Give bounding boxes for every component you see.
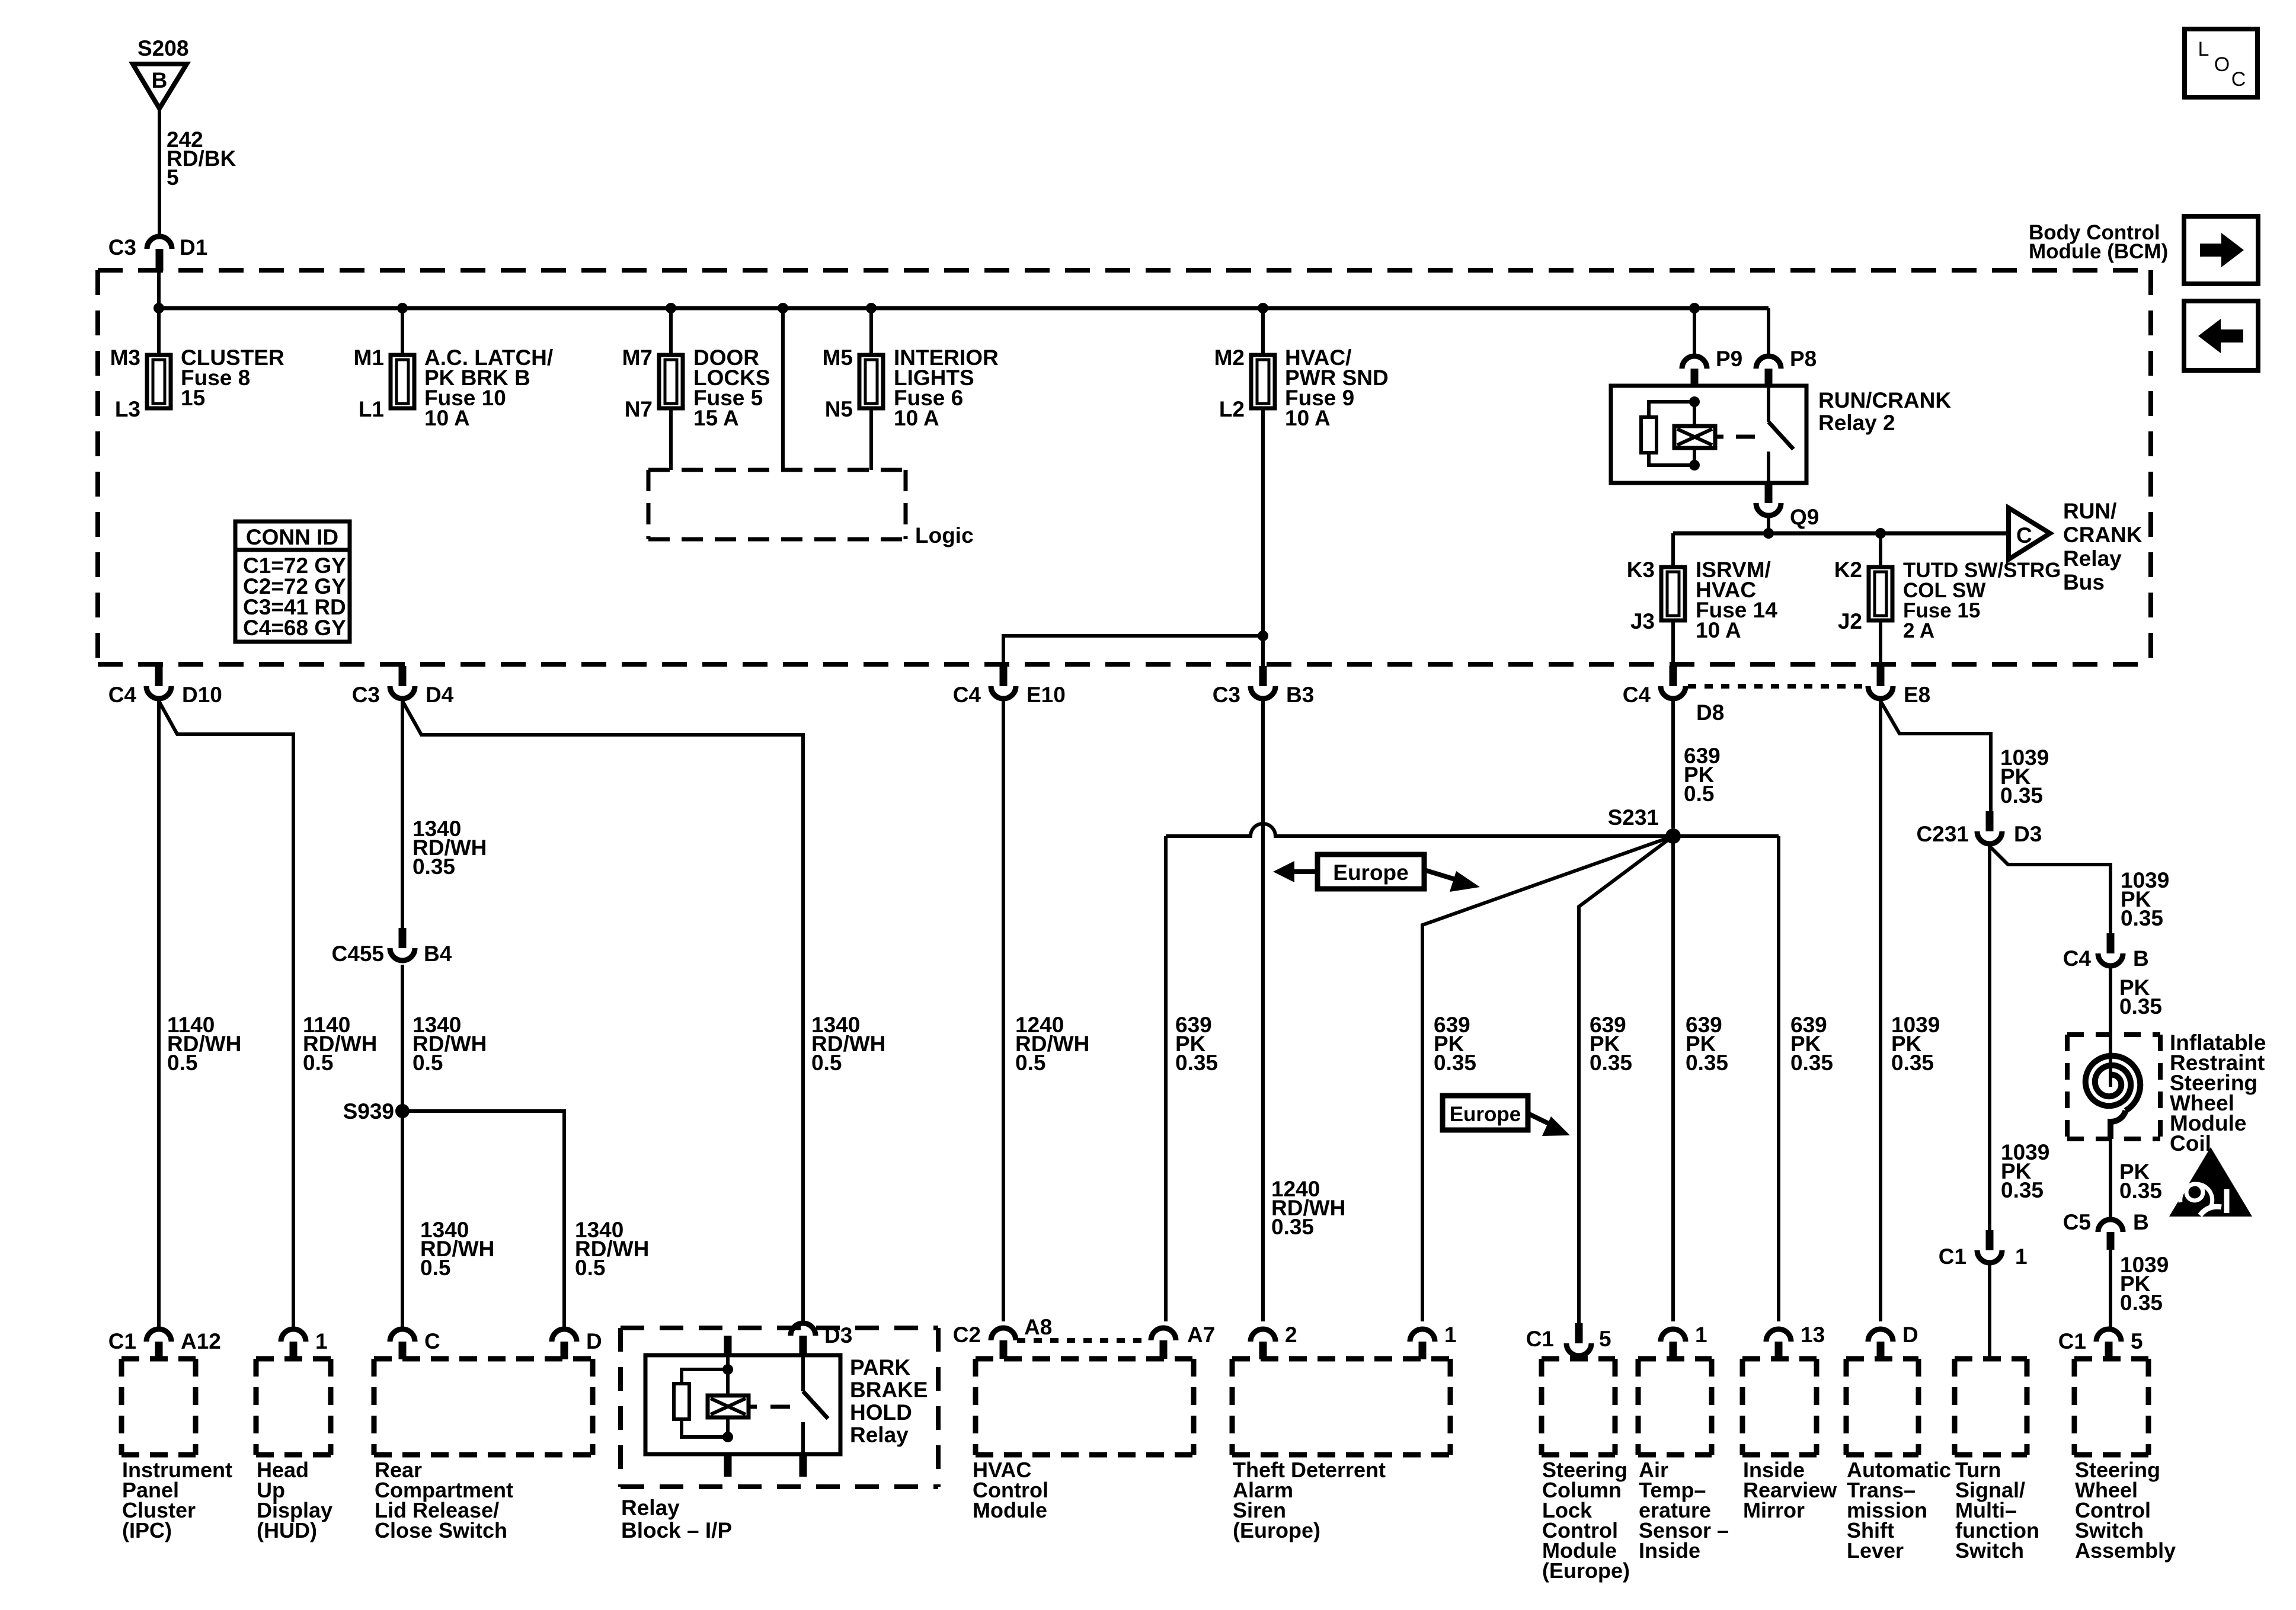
- component box Instrument Panel Cluster (IPC): [121, 1359, 196, 1455]
- svg-text:C1: C1: [108, 1329, 136, 1353]
- svg-text:L2: L2: [1219, 397, 1245, 421]
- connector 1 at HUD: [281, 1329, 306, 1359]
- svg-text:Q9: Q9: [1790, 505, 1819, 529]
- svg-text:D1: D1: [180, 235, 207, 260]
- connector C at rear compartment switch: [390, 1329, 415, 1359]
- wire coil box to C5/B: [2109, 1139, 2112, 1218]
- fuse DOOR LOCKS Fuse 5 (M7/N7): [659, 355, 683, 408]
- connector D at rear compartment switch: [552, 1329, 577, 1359]
- connector P8 (relay switch): [1756, 356, 1781, 386]
- svg-text:D3: D3: [2014, 822, 2042, 846]
- svg-text:S208: S208: [137, 36, 188, 60]
- svg-text:D10: D10: [182, 683, 222, 707]
- svg-text:Europe: Europe: [1450, 1103, 1521, 1126]
- Inflatable Restraint Steering Wheel Module Coil dashed box: [2067, 1035, 2160, 1139]
- wire Q9 to relay bus: [1767, 518, 1770, 533]
- svg-text:C1: C1: [1526, 1327, 1554, 1351]
- svg-text:5: 5: [1599, 1327, 1611, 1351]
- svg-text:C455: C455: [332, 942, 384, 966]
- Europe arrow pointing left: [1294, 869, 1318, 874]
- svg-text:C: C: [424, 1329, 440, 1353]
- svg-text:E8: E8: [1904, 683, 1930, 707]
- component box Head Up Display (HUD): [256, 1359, 331, 1455]
- svg-text:5: 5: [2131, 1329, 2143, 1353]
- connector C4/B inline: [2098, 933, 2123, 966]
- fuse ISRVM/HVAC Fuse 14 (K3/J3): [1661, 567, 1685, 620]
- wire C4/B to coil box: [2109, 967, 2112, 1035]
- wire bus to relay pin P9: [1693, 308, 1696, 355]
- wire B3 to Theft 2 (1240 RD/WH): [1261, 701, 1265, 1321]
- relay 2 coil junction top: [1689, 396, 1700, 407]
- fuse A.C. LATCH/PK BRK B Fuse 10 (M1/L1): [391, 355, 414, 408]
- svg-text:M1: M1: [354, 345, 384, 370]
- svg-text:L1: L1: [359, 397, 384, 421]
- svg-text:C2: C2: [953, 1323, 981, 1347]
- wire bus to fuse M2: [1261, 308, 1265, 355]
- connector C4/D10: [146, 666, 171, 699]
- relay 2 linkage dashes: [1715, 435, 1723, 439]
- wire S939 to Rear Compartment D: [402, 1111, 564, 1329]
- svg-text:C: C: [2231, 68, 2246, 91]
- junction dot Q9/bus: [1763, 528, 1774, 539]
- connector C231/D3 inline: [1977, 811, 2002, 844]
- svg-text:N5: N5: [825, 397, 853, 421]
- connector 13 at rearview mirror: [1766, 1329, 1791, 1359]
- connector C4/E10: [991, 666, 1016, 699]
- svg-text:CONN ID: CONN ID: [246, 525, 338, 549]
- svg-text:S939: S939: [343, 1099, 394, 1124]
- svg-text:K3: K3: [1627, 558, 1655, 582]
- wire S231 to Theft Deterrent A7: [1164, 836, 1168, 1321]
- wire bus to fuse M1: [401, 308, 404, 355]
- svg-text:C3: C3: [352, 683, 380, 707]
- wire D3 branch to C4/B: [1990, 846, 2110, 933]
- connector A7 at HVAC module: [1151, 1328, 1176, 1359]
- park relay coil (X box): [726, 1355, 730, 1395]
- Europe callout box 1: [1318, 854, 1424, 889]
- wire D10 branch to HUD: [159, 701, 293, 1329]
- wire bus to fuse M7: [669, 308, 673, 355]
- svg-text:C1: C1: [2058, 1329, 2086, 1353]
- component box Automatic Transmission Shift Lever: [1846, 1359, 1918, 1455]
- svg-text:C4: C4: [1623, 683, 1651, 707]
- svg-text:D4: D4: [426, 683, 454, 707]
- svg-text:2: 2: [1285, 1323, 1297, 1347]
- svg-text:E10: E10: [1027, 683, 1066, 707]
- connector C1/1 inline: [1977, 1230, 2002, 1263]
- wire D8 to splice S231 (639 PK): [1671, 701, 1675, 828]
- connector 2 at theft siren: [1251, 1329, 1275, 1359]
- park relay coil pin stub bottom: [724, 1454, 732, 1477]
- wire D1 to bus: [157, 270, 161, 355]
- svg-text:Logic: Logic: [915, 523, 974, 548]
- park relay coil junction bottom: [722, 1432, 733, 1442]
- wire 242 RD/BK from S208 to connector D1: [158, 108, 161, 235]
- svg-text:L: L: [2198, 38, 2209, 60]
- component box Turn Signal/Multifunction Switch: [1955, 1359, 2027, 1455]
- connector 1 at theft siren: [1410, 1329, 1435, 1359]
- connector C4/D8: [1661, 666, 1686, 699]
- wire fuse K3 to connector D8: [1671, 620, 1675, 666]
- svg-text:C231: C231: [1917, 822, 1969, 846]
- fuse HVAC/PWR SND Fuse 9 (M2/L2): [1251, 355, 1275, 408]
- park relay coil junction top: [722, 1364, 733, 1375]
- svg-text:D3: D3: [824, 1323, 852, 1347]
- svg-text:O: O: [2214, 53, 2230, 76]
- svg-text:C5: C5: [2063, 1210, 2091, 1234]
- svg-text:M7: M7: [622, 345, 653, 370]
- svg-text:B3: B3: [1286, 683, 1314, 707]
- connector D at shift lever: [1868, 1329, 1893, 1359]
- wire relay bus to fuse K2: [1879, 533, 1882, 567]
- splice S939: [395, 1104, 410, 1118]
- wire S231 horizontal right: [1673, 834, 1779, 838]
- svg-text:C4: C4: [108, 683, 137, 707]
- svg-text:D: D: [586, 1329, 602, 1353]
- svg-text:M2: M2: [1214, 345, 1245, 370]
- legend box arrow left: [2184, 301, 2258, 370]
- connector C455/B4 inline: [390, 928, 415, 961]
- wire relay bus to fuse K3: [1671, 533, 1675, 567]
- svg-text:M5: M5: [823, 345, 853, 370]
- wire fuse M5 to Logic box: [869, 408, 873, 470]
- legend box arrow right: [2184, 216, 2258, 284]
- connector E8: [1868, 666, 1893, 699]
- component box Steering Wheel Control Switch Assembly: [2074, 1359, 2148, 1455]
- connector C2/A8 at HVAC module: [991, 1328, 1016, 1359]
- component box Rear Compartment Lid Release/Close Switch: [374, 1359, 593, 1455]
- svg-text:K2: K2: [1834, 558, 1862, 582]
- wire bus to Logic box (middle): [781, 308, 785, 470]
- wire bus to fuse M5: [869, 308, 873, 355]
- wire S231 diagonal to Steering Column Lock C1/5: [1579, 836, 1673, 1323]
- junction dot on bus at x=1470: [866, 303, 877, 313]
- wire D4 to C455 (1340 RD/WH): [401, 701, 404, 928]
- park relay linkage dashes: [749, 1405, 757, 1409]
- connector D3 at relay block: [791, 1323, 816, 1355]
- svg-text:Europe: Europe: [1333, 860, 1408, 885]
- wire bus corner to relay pin P8: [1767, 308, 1770, 355]
- svg-text:1: 1: [1444, 1323, 1457, 1347]
- svg-text:S231: S231: [1608, 805, 1659, 830]
- connector C1/5 at steering column lock: [1566, 1323, 1591, 1356]
- wire S231 to Air Temperature Sensor 1: [1671, 836, 1675, 1321]
- connector C3/D4: [390, 666, 415, 699]
- wire C455 to splice S939: [401, 965, 404, 1111]
- power triangle S208 (B): [133, 64, 187, 108]
- clockspring coil spiral: [2109, 1035, 2112, 1067]
- wire S231 horizontal left with hop over B3 wire: [1166, 824, 1673, 836]
- component box HVAC Control Module: [976, 1359, 1194, 1455]
- wire bus to fuse M3: [157, 308, 161, 355]
- svg-text:SteeringColumnLockControlModul: SteeringColumnLockControlModule(Europe): [1542, 1458, 1630, 1583]
- svg-text:1: 1: [315, 1329, 328, 1353]
- junction dot on bus at x=679: [397, 303, 408, 313]
- connector Q9 (relay output): [1756, 483, 1781, 516]
- wire C1/1 to Turn Signal switch: [1988, 1265, 1991, 1359]
- svg-text:A7: A7: [1187, 1323, 1215, 1347]
- wire S231 diagonal to Theft Siren 1: [1422, 836, 1673, 1321]
- park relay switch: [801, 1355, 805, 1391]
- Logic dashed box: [648, 470, 906, 539]
- junction dot on bus at x=1321: [778, 303, 788, 313]
- junction dot on bus at x=2859: [1689, 303, 1700, 313]
- triangle C RUN/CRANK Relay Bus: [2009, 508, 2050, 559]
- splice S231: [1665, 828, 1681, 844]
- svg-text:J2: J2: [1838, 609, 1862, 633]
- relay 2 coil junction bottom: [1689, 460, 1700, 470]
- svg-text:D: D: [1902, 1323, 1918, 1347]
- wire fuse M2 to connector B3: [1261, 408, 1265, 666]
- wire S231 to Inside Rearview Mirror 13: [1777, 836, 1780, 1321]
- svg-text:C1: C1: [1939, 1244, 1966, 1269]
- PARK BRAKE HOLD Relay box: [645, 1355, 840, 1454]
- wire E8 branch to C231: [1881, 701, 1991, 811]
- svg-text:A8: A8: [1024, 1315, 1052, 1339]
- svg-text:C1=72 GYC2=72 GYC3=41 RDC4=68: C1=72 GYC2=72 GYC3=41 RDC4=68 GY: [243, 553, 346, 640]
- wire fuse M7 to Logic box: [669, 408, 673, 470]
- connector C3/B3: [1251, 666, 1275, 699]
- component box Theft Deterrent Alarm Siren (Europe): [1232, 1359, 1450, 1455]
- svg-text:B: B: [152, 68, 168, 92]
- junction dot K2 branch: [1875, 528, 1886, 539]
- connector C3/D1 at BCM top edge: [147, 236, 172, 271]
- svg-text:C4: C4: [953, 683, 981, 707]
- wire E8 to Automatic Transmission D (1039 PK): [1879, 701, 1882, 1321]
- wire C5/B to C1/5 (1039 PK): [2109, 1250, 2112, 1329]
- junction dot on bus at x=268: [154, 303, 164, 313]
- svg-text:P9: P9: [1716, 347, 1742, 371]
- junction dot on bus at x=1132: [666, 303, 676, 313]
- relay 2 switch: [1767, 386, 1770, 422]
- svg-text:N7: N7: [625, 397, 653, 421]
- relay 2 coil (X box): [1693, 402, 1696, 426]
- junction dot on bus at x=2131: [1258, 303, 1268, 313]
- svg-text:13: 13: [1801, 1323, 1825, 1347]
- svg-text:C3: C3: [108, 235, 136, 260]
- RUN/CRANK Relay 2 box: [1611, 386, 1806, 483]
- park relay resistor: [682, 1369, 728, 1384]
- Body Control Module (BCM) dashed outline: [98, 270, 2151, 664]
- CONN ID table: [235, 521, 350, 642]
- wire fuse K2 to connector E8: [1879, 620, 1882, 666]
- relay 2 resistor: [1649, 402, 1694, 417]
- wire E10 to HVAC A8 (1240 RD/WH): [1002, 701, 1005, 1321]
- Europe arrow pointing right-down: [1424, 870, 1461, 881]
- park relay switch pin stub bottom: [800, 1454, 807, 1477]
- svg-text:P8: P8: [1790, 347, 1817, 371]
- svg-text:J3: J3: [1630, 609, 1655, 633]
- svg-text:1: 1: [2015, 1244, 2028, 1269]
- svg-text:A12: A12: [181, 1329, 221, 1353]
- connector C1/A12 at IPC: [146, 1329, 171, 1359]
- wire D4 branch to relay block D3: [402, 701, 803, 1322]
- component box Air Temperature Sensor - Inside: [1638, 1359, 1712, 1455]
- wire M2 branch to E10: [1003, 636, 1263, 666]
- dotted line between A8 and A7: [1017, 1338, 1150, 1343]
- svg-text:C: C: [2016, 523, 2032, 548]
- svg-text:B: B: [2133, 946, 2149, 971]
- svg-text:C3: C3: [1213, 683, 1240, 707]
- svg-text:1: 1: [1695, 1323, 1707, 1347]
- connector P9 (relay coil): [1682, 356, 1707, 386]
- component box Steering Column Lock Control Module (Europe): [1542, 1359, 1615, 1455]
- Europe callout box 2: [1443, 1096, 1528, 1130]
- svg-text:B: B: [2133, 1210, 2149, 1234]
- connector C5/B inline: [2098, 1219, 2123, 1250]
- park relay coil pin stub top: [724, 1336, 732, 1355]
- fuse INTERIOR LIGHTS Fuse 6 (M5/N5): [859, 355, 883, 408]
- Relay Block - I/P dashed box: [621, 1328, 938, 1487]
- component box Inside Rearview Mirror: [1742, 1359, 1817, 1455]
- svg-text:L3: L3: [115, 397, 140, 421]
- dotted line between D8 and E8: [1688, 684, 1867, 689]
- svg-text:B4: B4: [424, 942, 452, 966]
- wire relay bus: [1673, 532, 2009, 536]
- svg-text:C4: C4: [2063, 946, 2092, 971]
- wire D10 to IPC (1140 RD/WH): [157, 701, 161, 1329]
- LOC legend box: [2185, 29, 2257, 97]
- wire S939 to Rear Compartment C: [401, 1111, 404, 1329]
- fuse CLUSTER Fuse 8 (M3/L3): [147, 355, 171, 408]
- wire C231 to C1/1 (1039 PK): [1988, 846, 1991, 1230]
- svg-text:M3: M3: [110, 345, 140, 370]
- Europe 2 arrow pointing right-down: [1528, 1113, 1551, 1125]
- junction dot on M2 wire: [1258, 630, 1268, 641]
- svg-text:Body ControlModule (BCM): Body ControlModule (BCM): [2029, 221, 2168, 263]
- svg-text:D8: D8: [1696, 700, 1724, 725]
- fuse TUTD SW/STRG COL SW Fuse 15 (K2/J2): [1869, 567, 1892, 620]
- wire bus from D1 across BCM: [159, 306, 1769, 311]
- connector 1 at air temp sensor: [1661, 1329, 1686, 1359]
- connector C1/5 at steering wheel switches: [2096, 1329, 2121, 1359]
